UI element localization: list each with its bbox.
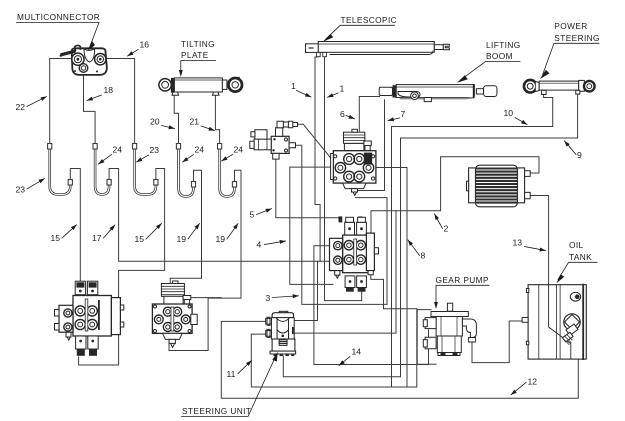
label 17 bbox=[92, 225, 115, 243]
label 14 bbox=[339, 347, 361, 366]
oil cooler bbox=[467, 165, 531, 207]
wire hose7: boom port down to valve1 bottom bbox=[356, 100, 385, 191]
oil tank bbox=[522, 285, 586, 359]
svg-text:21: 21 bbox=[190, 117, 200, 127]
wire line 10: power steering left port jog, across top and down to y=387 run bbox=[392, 95, 553, 387]
svg-text:GEAR PUMP: GEAR PUMP bbox=[436, 275, 489, 285]
label 22 bbox=[16, 97, 47, 113]
svg-text:6: 6 bbox=[340, 109, 345, 119]
wire line 9: power steering right port across and down to steering unit bottom bbox=[283, 95, 577, 377]
svg-text:TILTING: TILTING bbox=[181, 39, 215, 49]
gear pump bbox=[423, 303, 476, 355]
svg-text:9: 9 bbox=[577, 150, 582, 160]
label LIFTING BOOM bbox=[457, 40, 521, 83]
wire line 5: solenoid bottom to valve2 cap bbox=[276, 159, 338, 218]
svg-text:POWER: POWER bbox=[554, 21, 587, 31]
wire hose4 cap and tail to valve4 top bbox=[170, 170, 201, 284]
label 23 first bbox=[16, 179, 45, 195]
lifting boom cylinder bbox=[379, 85, 497, 102]
label 16 bbox=[128, 40, 150, 57]
label 19 first bbox=[177, 224, 200, 245]
label 18 bbox=[87, 85, 113, 101]
label STEERING UNIT bbox=[182, 352, 278, 417]
svg-text:4: 4 bbox=[257, 240, 262, 250]
svg-text:14: 14 bbox=[352, 347, 362, 357]
wire line 14: valve2 left-top port to gear pump upper fitting bbox=[314, 246, 429, 365]
svg-text:STEERING: STEERING bbox=[554, 33, 600, 43]
wire line 12: steering unit top port to tank bottom bbox=[221, 321, 578, 398]
svg-text:MULTICONNECTOR: MULTICONNECTOR bbox=[17, 12, 100, 22]
multiconnector bbox=[61, 45, 107, 74]
label 2 bbox=[435, 214, 449, 234]
label GEAR PUMP bbox=[434, 275, 489, 309]
wire hose5 cap and tail wrap to valve4 bottom bbox=[169, 170, 241, 350]
label 10 bbox=[504, 108, 528, 125]
wire hose3 left leg (16) bbox=[134, 59, 136, 148]
valve3 (bottom-left valve block) bbox=[55, 281, 124, 356]
telescopic cylinder bbox=[306, 42, 450, 57]
svg-text:15: 15 bbox=[135, 234, 145, 244]
wire multiconnector header line bbox=[50, 58, 135, 60]
label 7 bbox=[388, 109, 406, 121]
wire hose5 left leg from tilting cylinder right port (21) bbox=[215, 95, 219, 147]
svg-text:1: 1 bbox=[340, 84, 345, 94]
wire telescopic line 1 right bbox=[325, 54, 362, 301]
wire cooler line branch down to steering unit right-bottom port bbox=[295, 211, 397, 333]
svg-text:5: 5 bbox=[250, 210, 255, 220]
svg-text:23: 23 bbox=[16, 185, 26, 195]
svg-text:22: 22 bbox=[16, 102, 26, 112]
wire gear pump suction box bbox=[417, 310, 436, 365]
label 3 bbox=[266, 293, 299, 303]
solenoid valve bbox=[250, 121, 298, 159]
svg-text:BOOM: BOOM bbox=[486, 51, 513, 61]
wire steering unit right-top port riser bbox=[295, 261, 318, 320]
power steering cylinder bbox=[524, 80, 595, 95]
svg-text:PLATE: PLATE bbox=[181, 50, 209, 60]
svg-text:TELESCOPIC: TELESCOPIC bbox=[341, 15, 398, 25]
label POWER STEERING bbox=[540, 21, 600, 81]
wire line 4: valve1 left to valve2 bottom-left bbox=[290, 167, 333, 284]
label TELESCOPIC bbox=[323, 15, 398, 42]
svg-text:LIFTING: LIFTING bbox=[486, 40, 521, 50]
wire hose6: valve1 top to boom rod port bbox=[359, 97, 379, 132]
wire line 12 tank riser stub bbox=[575, 359, 577, 398]
svg-text:2: 2 bbox=[444, 224, 449, 234]
label 6 bbox=[340, 109, 355, 119]
svg-text:23: 23 bbox=[150, 145, 160, 155]
label 24 first bbox=[99, 145, 123, 165]
valve1 (upper centre valve block) bbox=[331, 129, 376, 195]
label 15 second bbox=[135, 224, 162, 245]
tilting cylinder bbox=[159, 78, 242, 96]
svg-text:11: 11 bbox=[227, 369, 236, 379]
svg-text:12: 12 bbox=[528, 377, 538, 387]
label 8 bbox=[408, 240, 426, 261]
label 20 bbox=[150, 117, 175, 129]
label 12 bbox=[511, 377, 537, 395]
wire hose1 cap and tail to valve3 top bbox=[70, 169, 80, 282]
label 5 bbox=[250, 209, 272, 220]
label 24 third bbox=[222, 145, 244, 162]
label 19 second bbox=[216, 224, 239, 245]
label 1 first bbox=[291, 81, 311, 97]
svg-text:17: 17 bbox=[92, 233, 102, 243]
label 24 second bbox=[183, 145, 205, 163]
wire solenoid top fitting to valve1 (diagonal) bbox=[298, 124, 331, 158]
label TILTING PLATE bbox=[179, 39, 216, 77]
wire hose2 cap and tail: long run to valve2 left-mid port bbox=[109, 169, 332, 262]
wire line 3: solenoid right port down to valve1 bottom loop bbox=[296, 145, 388, 304]
wire line 2: oil cooler top loop bbox=[371, 157, 539, 234]
svg-text:24: 24 bbox=[195, 145, 205, 155]
steering unit bbox=[266, 311, 296, 356]
wire tank internal suction diagonal bbox=[549, 284, 571, 344]
wire hose2 from multiconnector (18) bbox=[84, 76, 96, 148]
svg-text:8: 8 bbox=[421, 251, 426, 261]
svg-text:15: 15 bbox=[51, 233, 61, 243]
label 11 bbox=[227, 361, 252, 380]
wire telescopic line 1 left bbox=[315, 54, 320, 262]
valve2 (central valve block) bbox=[330, 216, 379, 291]
label 23 second bbox=[137, 145, 160, 162]
valve4 (valve block with ribbed top) bbox=[152, 281, 197, 348]
svg-text:24: 24 bbox=[113, 145, 123, 155]
wire valve1 right port across and down bbox=[372, 168, 407, 388]
label 4 bbox=[257, 240, 286, 250]
svg-text:16: 16 bbox=[140, 40, 150, 50]
svg-text:7: 7 bbox=[401, 109, 406, 119]
svg-text:19: 19 bbox=[177, 234, 187, 244]
label MULTICONNECTOR bbox=[17, 12, 101, 52]
svg-text:24: 24 bbox=[234, 145, 244, 155]
svg-text:18: 18 bbox=[104, 85, 114, 95]
label 9 bbox=[565, 141, 583, 160]
label OIL TANK bbox=[557, 240, 598, 283]
svg-text:1: 1 bbox=[291, 81, 296, 91]
label 15 first bbox=[51, 225, 77, 243]
svg-text:13: 13 bbox=[513, 238, 523, 248]
svg-text:TANK: TANK bbox=[569, 252, 592, 262]
wire line 13: oil cooler bottom to tank top bbox=[530, 196, 548, 285]
wire hose1 left leg (22) bbox=[49, 59, 51, 148]
svg-text:10: 10 bbox=[504, 108, 514, 118]
svg-text:STEERING UNIT: STEERING UNIT bbox=[182, 406, 251, 416]
svg-text:3: 3 bbox=[266, 293, 271, 303]
wire hose4 left leg from tilting cylinder left port (20) bbox=[174, 95, 178, 147]
wire steering unit bottom-left port wrap to valve2 bottom-right bbox=[251, 273, 416, 387]
wire hose3 cap and tail wrap to valve3 bottom bbox=[79, 169, 165, 366]
wire valve4 right port to line-12 riser bbox=[191, 297, 222, 299]
label 1 second bbox=[328, 84, 345, 98]
label 21 bbox=[190, 117, 215, 131]
label 13 bbox=[513, 238, 546, 251]
svg-text:OIL: OIL bbox=[569, 240, 584, 250]
svg-text:19: 19 bbox=[216, 234, 226, 244]
wire gear pump outlet to tank left port bbox=[472, 321, 524, 363]
svg-text:20: 20 bbox=[150, 117, 160, 127]
